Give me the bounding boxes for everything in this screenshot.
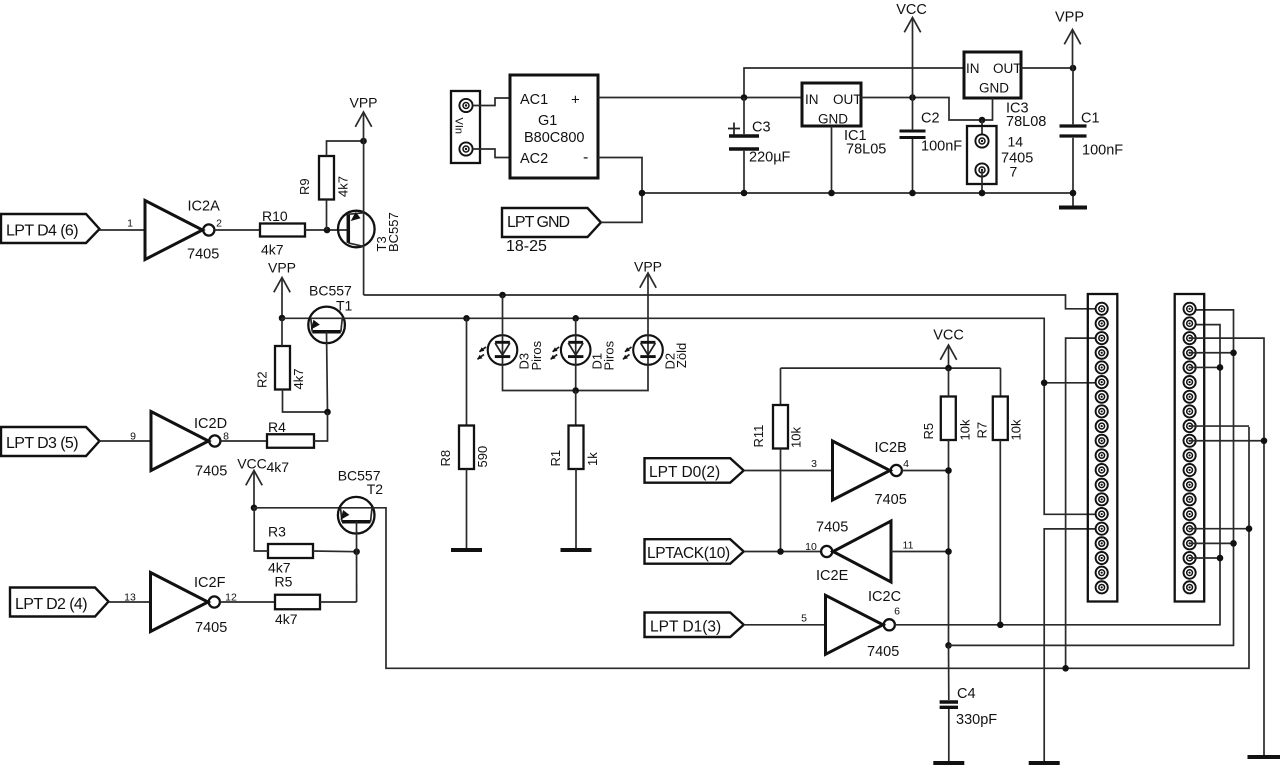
svg-text:LPT D0(2): LPT D0(2) xyxy=(649,464,720,481)
svg-text:4k7: 4k7 xyxy=(267,459,290,475)
wire xyxy=(254,507,268,551)
LED D3 xyxy=(488,335,518,365)
power VPP xyxy=(647,273,649,335)
wire left pad3 xyxy=(1066,338,1102,668)
svg-text:VCC: VCC xyxy=(237,456,267,472)
junction xyxy=(945,365,952,372)
svg-text:4: 4 xyxy=(903,458,909,470)
wire pad18 stub xyxy=(1190,557,1220,559)
wire xyxy=(109,601,151,603)
svg-text:GND: GND xyxy=(979,81,1009,96)
inverter IC2E xyxy=(833,521,891,582)
junction xyxy=(1062,665,1069,672)
resistor R5 xyxy=(941,397,956,441)
svg-text:4k7: 4k7 xyxy=(275,611,298,627)
svg-text:4k7: 4k7 xyxy=(291,369,306,390)
wire LED cathode rail xyxy=(503,365,649,391)
svg-text:14: 14 xyxy=(1008,134,1024,150)
connector Vin xyxy=(451,91,480,163)
svg-text:100nF: 100nF xyxy=(921,139,962,155)
svg-text:6: 6 xyxy=(894,606,900,618)
svg-text:-: - xyxy=(583,149,588,166)
wire xyxy=(254,507,373,509)
net flag LPT D4 (6) xyxy=(1,214,100,243)
connector SV1 xyxy=(1088,294,1118,602)
wire pad9 stub xyxy=(1190,425,1249,427)
junction xyxy=(279,315,286,322)
inverter IC2A xyxy=(145,201,203,260)
svg-text:10k: 10k xyxy=(958,419,973,440)
svg-text:100nF: 100nF xyxy=(1082,143,1123,159)
wire xyxy=(100,229,146,231)
wire xyxy=(363,141,365,213)
wire xyxy=(281,318,283,346)
wire xyxy=(981,170,983,193)
wire pad4 stub xyxy=(1190,352,1234,354)
svg-text:7405: 7405 xyxy=(187,247,219,263)
wire xyxy=(780,449,782,552)
wire xyxy=(363,213,365,295)
svg-text:IC2E: IC2E xyxy=(816,568,849,584)
svg-text:4k7: 4k7 xyxy=(336,176,351,197)
svg-text:IC2F: IC2F xyxy=(194,575,226,591)
wire xyxy=(327,141,364,156)
LED D2 xyxy=(633,335,663,365)
junction xyxy=(979,190,986,197)
wire xyxy=(831,126,833,193)
svg-text:VPP: VPP xyxy=(349,95,377,111)
junction xyxy=(777,548,784,555)
svg-text:R9: R9 xyxy=(297,178,312,195)
svg-text:IC2D: IC2D xyxy=(194,416,227,432)
regulator IC1 78L05 xyxy=(802,83,861,126)
junction xyxy=(360,138,367,145)
wire R5 column xyxy=(948,440,950,645)
svg-text:11: 11 xyxy=(903,540,914,552)
svg-text:R5: R5 xyxy=(921,423,936,440)
svg-text:LPT D2 (4): LPT D2 (4) xyxy=(15,596,87,613)
wire xyxy=(891,551,949,553)
junction xyxy=(909,190,916,197)
svg-text:T2: T2 xyxy=(367,481,384,497)
wire xyxy=(326,200,328,231)
wire xyxy=(220,440,267,442)
wire left pad16 to ground xyxy=(1044,529,1102,763)
wire pad3 line to ground xyxy=(1190,338,1264,757)
LED D1 xyxy=(561,335,591,365)
connector SV2 xyxy=(1175,294,1205,602)
svg-text:R10: R10 xyxy=(262,208,288,224)
net flag LPT D2 (4) xyxy=(10,588,109,617)
inverter IC2C xyxy=(826,595,884,654)
connector 7405 power pins xyxy=(967,126,997,184)
svg-text:R7: R7 xyxy=(975,422,990,439)
svg-text:OUT: OUT xyxy=(833,92,862,107)
svg-text:R8: R8 xyxy=(438,450,453,467)
resistor R9 xyxy=(319,156,334,200)
ground xyxy=(1029,761,1060,765)
wire rail T1 collector xyxy=(342,318,1101,514)
wire xyxy=(313,550,357,553)
svg-text:LPT GND: LPT GND xyxy=(507,214,570,231)
transistor T1 xyxy=(308,307,345,344)
junction xyxy=(945,642,952,649)
svg-text:C3: C3 xyxy=(752,120,771,136)
net flag LPTACK(10) xyxy=(645,539,744,564)
svg-text:VPP: VPP xyxy=(634,259,662,275)
resistor R2 xyxy=(275,346,290,390)
resistor R3 xyxy=(268,544,313,558)
svg-text:VPP: VPP xyxy=(1055,10,1084,26)
junction xyxy=(945,548,952,555)
wire xyxy=(1021,67,1073,69)
wire xyxy=(981,120,983,141)
wire xyxy=(948,368,950,396)
wire xyxy=(473,149,510,158)
capacitor C4 xyxy=(940,700,958,703)
svg-text:AC2: AC2 xyxy=(520,151,548,167)
svg-text:GND: GND xyxy=(818,112,848,127)
transistor T3 xyxy=(338,211,375,248)
svg-text:2: 2 xyxy=(216,218,222,230)
wire xyxy=(364,295,1102,309)
wire xyxy=(473,98,510,106)
ground xyxy=(561,548,592,552)
wire xyxy=(861,98,982,121)
junction xyxy=(1070,65,1077,72)
svg-text:13: 13 xyxy=(124,592,136,604)
svg-text:Piros: Piros xyxy=(602,340,617,370)
wire xyxy=(1044,382,1102,384)
svg-text:7405: 7405 xyxy=(875,492,907,508)
wire xyxy=(100,440,152,442)
junction xyxy=(572,315,579,322)
svg-text:OUT: OUT xyxy=(993,61,1022,76)
svg-text:VPP: VPP xyxy=(268,260,296,276)
svg-text:LPT D4 (6): LPT D4 (6) xyxy=(6,223,78,240)
wire rail xyxy=(781,367,1001,369)
wire xyxy=(575,469,577,550)
svg-text:BC557: BC557 xyxy=(386,212,401,252)
regulator IC3 78L08 xyxy=(964,52,1021,98)
capacitor C3 xyxy=(729,134,759,138)
svg-text:3: 3 xyxy=(811,458,817,470)
svg-text:B80C800: B80C800 xyxy=(524,130,584,146)
junction xyxy=(251,505,258,512)
wire xyxy=(220,601,275,603)
wire xyxy=(466,469,468,550)
resistor R7 xyxy=(993,397,1008,441)
wire xyxy=(305,229,348,231)
svg-text:7405: 7405 xyxy=(867,644,899,660)
svg-text:C4: C4 xyxy=(957,686,976,702)
svg-text:T1: T1 xyxy=(336,298,353,314)
svg-text:LPT D1(3): LPT D1(3) xyxy=(650,619,721,636)
svg-text:G1: G1 xyxy=(538,113,557,129)
capacitor C2 xyxy=(900,130,926,133)
svg-text:VCC: VCC xyxy=(896,2,927,18)
svg-text:+: + xyxy=(571,92,580,109)
power VPP xyxy=(1072,30,1074,69)
junction xyxy=(639,190,646,197)
power VCC xyxy=(912,18,914,98)
junction xyxy=(353,548,360,555)
svg-text:IN: IN xyxy=(805,92,819,107)
transistor T2 xyxy=(338,497,375,534)
junction xyxy=(945,467,952,474)
inverter IC2B xyxy=(833,441,891,500)
ground xyxy=(451,548,482,552)
svg-text:IN: IN xyxy=(966,61,980,76)
junction xyxy=(1217,555,1224,562)
wire pad17 stub xyxy=(1190,542,1234,544)
svg-text:7: 7 xyxy=(1010,164,1018,180)
svg-text:18-25: 18-25 xyxy=(506,238,547,255)
junction xyxy=(572,387,579,394)
junction xyxy=(1041,380,1048,387)
junction xyxy=(1261,437,1268,444)
svg-text:7405: 7405 xyxy=(816,520,848,536)
junction xyxy=(909,94,916,101)
junction xyxy=(1070,190,1077,197)
svg-text:10: 10 xyxy=(805,541,817,553)
junction xyxy=(1217,364,1224,371)
wire H2 xyxy=(949,310,1234,646)
junction xyxy=(324,409,331,416)
inverter IC2F xyxy=(151,573,209,632)
wire xyxy=(314,412,328,441)
svg-text:78L08: 78L08 xyxy=(1006,114,1046,130)
svg-text:78L05: 78L05 xyxy=(846,142,886,158)
wire xyxy=(1000,368,1002,396)
wire xyxy=(502,295,504,335)
power VCC xyxy=(948,345,950,368)
svg-text:LPTACK(10): LPTACK(10) xyxy=(647,545,730,562)
wire xyxy=(575,391,577,426)
svg-text:10k: 10k xyxy=(789,427,804,448)
wire xyxy=(214,229,260,231)
wire pad5 stub xyxy=(1190,366,1220,368)
wire xyxy=(744,470,833,472)
svg-text:R4: R4 xyxy=(268,419,286,435)
junction xyxy=(741,94,748,101)
wire raw rail xyxy=(744,68,964,98)
svg-text:R2: R2 xyxy=(255,371,270,388)
inverter IC2D xyxy=(151,412,209,471)
svg-text:LPT D3 (5): LPT D3 (5) xyxy=(6,435,78,452)
wire plus rail xyxy=(598,97,802,99)
svg-text:4k7: 4k7 xyxy=(261,242,284,258)
wire pad16 stub xyxy=(1190,528,1249,530)
ground xyxy=(1059,206,1087,210)
resistor R10 xyxy=(260,224,305,237)
svg-text:1: 1 xyxy=(127,218,133,230)
svg-text:330pF: 330pF xyxy=(956,712,997,728)
svg-text:R3: R3 xyxy=(268,524,286,540)
svg-text:R11: R11 xyxy=(751,425,766,448)
wire xyxy=(575,318,577,335)
svg-text:5: 5 xyxy=(801,613,807,625)
resistor R8 xyxy=(459,426,474,470)
svg-text:IC2A: IC2A xyxy=(188,199,221,215)
junction xyxy=(324,227,331,234)
svg-text:Piros: Piros xyxy=(529,340,544,370)
capacitor C1 xyxy=(1060,124,1087,127)
wire R7 column xyxy=(999,440,1001,625)
svg-text:BC557: BC557 xyxy=(309,283,352,299)
wire pad10 stub xyxy=(1190,440,1264,442)
svg-text:C1: C1 xyxy=(1081,111,1100,127)
wire xyxy=(320,601,357,603)
resistor R4 xyxy=(267,434,314,448)
svg-text:C2: C2 xyxy=(921,111,940,127)
net flag LPT D1(3) xyxy=(645,613,744,638)
svg-text:VCC: VCC xyxy=(933,328,964,344)
wire xyxy=(575,365,577,391)
wire xyxy=(902,470,949,472)
junction xyxy=(1230,540,1237,547)
wire xyxy=(327,332,328,412)
svg-text:1k: 1k xyxy=(585,452,600,466)
power VPP xyxy=(281,278,283,319)
svg-text:7405: 7405 xyxy=(195,464,227,480)
power VCC xyxy=(253,471,255,508)
resistor R1 xyxy=(569,426,584,470)
wire xyxy=(356,522,358,602)
svg-text:AC1: AC1 xyxy=(520,92,548,108)
wire xyxy=(601,193,642,222)
wire IC2C out xyxy=(894,325,1220,625)
wire xyxy=(466,318,468,425)
svg-text:10k: 10k xyxy=(1009,419,1024,440)
svg-text:R5: R5 xyxy=(275,574,293,590)
junction xyxy=(741,190,748,197)
wire xyxy=(282,317,342,319)
wire xyxy=(780,368,782,405)
bridge rectifier G1 xyxy=(510,75,598,178)
junction xyxy=(979,117,986,124)
svg-text:Zöld: Zöld xyxy=(674,343,689,368)
svg-text:7405: 7405 xyxy=(195,620,227,636)
ground xyxy=(1248,755,1280,759)
wire T2 collector xyxy=(372,427,1249,668)
net flag LPT GND xyxy=(502,208,601,237)
resistor R5 xyxy=(275,595,320,610)
svg-text:IC2C: IC2C xyxy=(868,589,901,605)
junction xyxy=(463,315,470,322)
junction xyxy=(1246,525,1253,532)
junction xyxy=(1230,349,1237,356)
junction xyxy=(997,622,1004,629)
wire xyxy=(283,390,328,413)
ground xyxy=(933,761,964,765)
resistor R11 xyxy=(773,405,788,449)
svg-text:R1: R1 xyxy=(548,450,563,467)
svg-text:9: 9 xyxy=(130,431,136,443)
svg-text:IC2B: IC2B xyxy=(875,440,907,456)
net flag LPT D3 (5) xyxy=(1,427,100,456)
svg-text:VIn: VIn xyxy=(453,118,465,135)
wire xyxy=(744,551,821,553)
wire ground rail xyxy=(642,192,1073,194)
power VPP xyxy=(363,112,365,141)
junction xyxy=(499,292,506,299)
wire xyxy=(744,624,826,626)
svg-text:220µF: 220µF xyxy=(749,150,791,166)
svg-text:590: 590 xyxy=(475,446,490,468)
junction xyxy=(828,190,835,197)
net flag LPT D0(2) xyxy=(645,458,744,483)
wire minus xyxy=(598,158,642,194)
wire xyxy=(982,98,993,120)
